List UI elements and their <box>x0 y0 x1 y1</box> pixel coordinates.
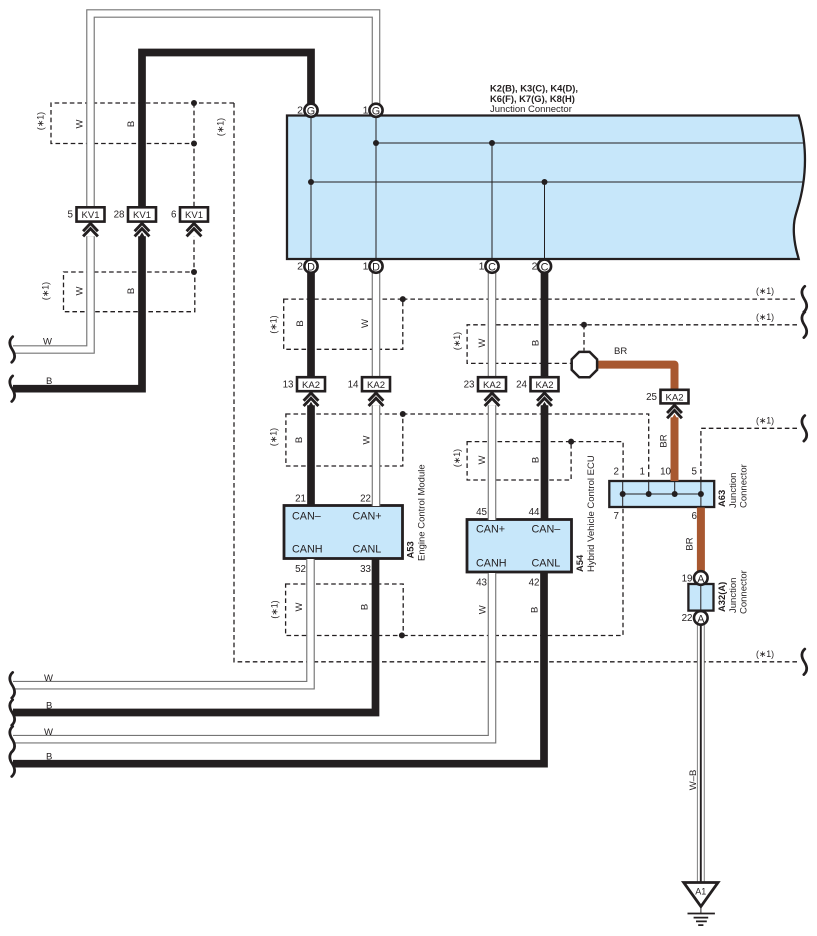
label (*1) right edge y662 <box>756 649 774 659</box>
wire dashed (*1) option box below 13/14 KA2 <box>286 414 403 466</box>
wire dashed (*1) line from A53 box to A63 pin 7 <box>403 507 623 636</box>
pin label 1 at terminal 1G <box>363 105 369 117</box>
junction dot bus x=544.5 y=182 <box>542 179 548 185</box>
connector 24 KA2 box <box>531 377 559 391</box>
svg-text:W: W <box>75 119 86 128</box>
svg-text:B: B <box>46 376 52 387</box>
wire B 13 KA2 to A53 pin 21 <box>307 405 315 506</box>
label CAN- in A54 <box>532 524 561 536</box>
label (*1) box below 13/14 rotated <box>269 428 279 446</box>
pin label 5 at A63 <box>692 467 698 478</box>
svg-text:A54: A54 <box>574 554 585 572</box>
terminal 2 G circle <box>304 104 317 118</box>
connector 14 KA2 chevrons <box>369 393 384 406</box>
wire break squiggle left B upper <box>10 376 15 402</box>
label W box below 52 rotated <box>294 602 305 611</box>
wire dashed (*1) line to A63 pin 2 <box>571 442 623 481</box>
svg-text:G: G <box>307 106 315 118</box>
svg-text:CAN+: CAN+ <box>353 511 382 523</box>
label W below 43 rotated <box>478 605 489 614</box>
wire dashed (*1) tall right branch to right edge <box>234 103 797 662</box>
svg-text:13: 13 <box>283 380 294 391</box>
svg-text:A53: A53 <box>405 541 416 558</box>
wire B loop lower segment left exit to 28 KV1 <box>13 236 142 389</box>
svg-text:CANH: CANH <box>292 544 323 556</box>
pin label 28 at 28 KV1 <box>114 210 125 221</box>
pin label 52 at A53 <box>295 564 306 575</box>
svg-text:B: B <box>294 437 305 443</box>
wire W-B A32 terminal 22 to ground A1 <box>697 625 705 883</box>
svg-text:W: W <box>43 337 52 348</box>
pin label 5 at 5 KV1 <box>68 210 74 221</box>
wire break squiggle right y325 <box>802 312 807 338</box>
label CAN+ in A53 <box>353 511 382 523</box>
svg-text:(∗1): (∗1) <box>269 315 279 333</box>
svg-text:19: 19 <box>682 573 693 584</box>
connector 6 KV1 box <box>180 207 208 221</box>
label B box above 24 rotated <box>531 340 542 346</box>
pin label 2 at terminal 2G <box>297 105 303 117</box>
wire W A54 pin 43 CANH to left exit <box>13 573 492 739</box>
label A53 designator rotated <box>405 541 416 558</box>
label B exit upper left <box>46 376 52 387</box>
internal vertical 2G-2D inside junction connector <box>310 116 312 260</box>
wire break squiggle left W upper <box>10 337 15 363</box>
svg-text:B: B <box>360 604 371 610</box>
junction dot on dashed column x=194 y=103 <box>191 100 197 106</box>
label B below 42 rotated <box>530 607 541 613</box>
label A32(A) designator rotated <box>716 582 727 612</box>
pin label 13 at 13 KA2 <box>283 380 294 391</box>
pin label 2 at terminal 2D <box>297 261 303 273</box>
svg-text:(∗1): (∗1) <box>216 118 226 136</box>
svg-text:BR: BR <box>685 537 696 550</box>
label (*1) right edge y428 <box>756 416 774 426</box>
svg-text:W: W <box>294 602 305 611</box>
svg-text:CAN+: CAN+ <box>476 524 505 536</box>
terminal 2 C circle <box>538 260 551 274</box>
svg-text:(∗1): (∗1) <box>756 649 774 659</box>
svg-text:Junction: Junction <box>728 473 739 508</box>
wire dashed (*1) option box above 13/14 KA2 <box>284 299 403 349</box>
label W box above 45 rotated <box>477 455 488 464</box>
ground symbol A1 <box>684 883 718 926</box>
junction dot A63 pin1 <box>646 491 652 497</box>
svg-text:7: 7 <box>614 511 619 522</box>
svg-text:KV1: KV1 <box>185 210 203 221</box>
svg-text:CANL: CANL <box>353 544 382 556</box>
pin label 14 at 14 KA2 <box>348 380 359 391</box>
wire W A53 pin 52 CANH to left exit <box>13 559 311 685</box>
internal bus line y=182 inside junction connector <box>311 181 803 183</box>
wire dashed (*1) line to A63 pin 5 from right edge <box>701 428 797 481</box>
wire B A53 pin 33 CANL to left exit <box>13 559 376 713</box>
wire BR octagon to 25 KA2 <box>598 365 675 391</box>
label W exit A54 <box>44 727 53 738</box>
label CANH in A53 <box>292 544 323 556</box>
svg-text:KA2: KA2 <box>666 392 684 403</box>
svg-text:C: C <box>541 262 549 274</box>
wire BR 25 KA2 to A63 pin 10 <box>671 417 679 481</box>
connector 14 KA2 box <box>362 377 390 391</box>
pin label 43 at A54 <box>476 577 487 588</box>
label BR above A63 rotated <box>659 434 670 447</box>
pin label 25 at 25 KA2 <box>646 392 657 403</box>
svg-text:B: B <box>295 320 306 326</box>
svg-text:KA2: KA2 <box>302 380 320 391</box>
pin label 24 at 24 KA2 <box>516 380 527 391</box>
label (*1) lower-left box rotated <box>41 282 51 300</box>
svg-text:1: 1 <box>640 467 645 478</box>
pin label 10 at A63 <box>660 467 671 478</box>
svg-text:B: B <box>46 700 52 711</box>
label (*1) right edge y325 <box>756 312 774 322</box>
connector 28 KV1 chevrons and arrow tip <box>135 223 150 238</box>
svg-text:6: 6 <box>692 511 698 522</box>
label A63 Junction Connector rotated <box>728 464 750 508</box>
svg-text:C: C <box>488 262 496 274</box>
label (*1) box below A53 rotated <box>270 600 280 618</box>
svg-text:KA2: KA2 <box>483 380 501 391</box>
wire dashed (*1) KV1 option column <box>193 103 195 272</box>
label BR below A63 rotated <box>685 537 696 550</box>
svg-text:(∗1): (∗1) <box>269 428 279 446</box>
wire break squiggle left W A53 <box>10 672 15 698</box>
wire break squiggle right y299 <box>802 286 807 312</box>
wire break squiggle left B A53 <box>10 700 15 726</box>
svg-text:33: 33 <box>360 564 371 575</box>
junction dot dashed x=584 y=324.8 <box>581 322 587 328</box>
svg-text:B: B <box>531 457 542 463</box>
junction dot dashed corner x=401.9 y=635.4 <box>399 632 405 638</box>
svg-text:14: 14 <box>348 380 359 391</box>
wire B A54 pin 42 CANL to left exit <box>13 573 544 764</box>
svg-text:W–B: W–B <box>688 770 699 791</box>
svg-text:W: W <box>75 286 86 295</box>
svg-text:2: 2 <box>297 105 303 117</box>
label W-B ground wire rotated <box>688 770 699 791</box>
pin label 6 at 6 KV1 <box>171 210 177 221</box>
svg-text:W: W <box>44 727 53 738</box>
junction dot on dashed column x=194 y=272 <box>191 269 197 275</box>
label B box above 44 rotated <box>531 457 542 463</box>
svg-text:A: A <box>697 613 705 625</box>
label B exit A54 <box>46 752 52 763</box>
svg-text:1: 1 <box>479 261 485 273</box>
pin label 44 at A54 <box>529 507 540 518</box>
ECU A53 Engine Control Module box <box>284 506 403 559</box>
svg-text:42: 42 <box>529 577 540 588</box>
connector 13 KA2 box <box>297 377 325 391</box>
svg-text:W: W <box>477 338 488 347</box>
pin label 19 at A32 <box>682 573 693 584</box>
connector 23 KA2 box <box>478 377 506 391</box>
terminal 1 G circle <box>369 104 382 118</box>
svg-text:24: 24 <box>516 380 527 391</box>
svg-text:B: B <box>46 752 52 763</box>
wire break squiggle right y662 <box>802 649 807 675</box>
pin label 2 at terminal 2C <box>532 261 538 273</box>
connector 28 KV1 box <box>128 207 156 221</box>
svg-text:Engine Control Module: Engine Control Module <box>417 464 428 561</box>
terminal 19 A circle <box>694 571 708 585</box>
wire dashed stub into noise-filter octagon top <box>583 325 585 351</box>
svg-text:23: 23 <box>464 380 475 391</box>
svg-text:W: W <box>362 435 373 444</box>
svg-text:CAN–: CAN– <box>532 524 561 536</box>
svg-text:Connector: Connector <box>739 464 750 508</box>
pin label 33 at A53 <box>360 564 371 575</box>
connector 5 KV1 box <box>77 207 105 221</box>
terminal 22 A circle <box>694 611 708 625</box>
svg-text:CAN–: CAN– <box>292 511 321 523</box>
svg-text:Connector: Connector <box>739 570 750 614</box>
svg-text:44: 44 <box>529 507 540 518</box>
label B exit A53 <box>46 700 52 711</box>
connector 25 KA2 box <box>661 390 689 404</box>
label W exit upper left <box>43 337 52 348</box>
label W box below 14 rotated <box>362 435 373 444</box>
pin label 6 at A63 <box>692 511 698 522</box>
svg-text:A63: A63 <box>716 490 727 507</box>
junction connector A63 box <box>609 481 714 507</box>
svg-text:A32(A): A32(A) <box>716 582 727 612</box>
svg-text:(∗1): (∗1) <box>756 416 774 426</box>
label (*1) box above 13/14 rotated <box>269 315 279 333</box>
wire dashed (*1) option box above A54 <box>467 442 571 480</box>
label W box above 14 rotated <box>360 319 371 328</box>
label A54 designator rotated <box>574 554 585 572</box>
wire W terminal 1C to 23 KA2 <box>488 272 497 378</box>
svg-text:CANL: CANL <box>532 558 561 570</box>
wire BR A63 pin 6 to A32 terminal 19 <box>697 508 705 572</box>
label CANH in A54 <box>476 558 507 570</box>
label W exit A53 <box>44 673 53 684</box>
svg-text:(∗1): (∗1) <box>270 600 280 618</box>
label B lower-left box rotated <box>126 288 137 294</box>
label CANL in A54 <box>532 558 561 570</box>
svg-text:(∗1): (∗1) <box>41 282 51 300</box>
label Hybrid Vehicle Control ECU rotated <box>586 455 597 572</box>
svg-text:43: 43 <box>476 577 487 588</box>
pin label 2 at A63 <box>614 467 619 478</box>
junction dot dashed x=571.1 y=441.6 <box>568 439 574 445</box>
pin label 45 at A54 <box>476 507 487 518</box>
junction dot dashed corner x=402.8 y=299.1 <box>400 296 406 302</box>
svg-text:B: B <box>126 121 137 127</box>
terminal 1 C circle <box>485 260 498 274</box>
wire dashed (*1) line to right edge y=299 <box>403 298 797 300</box>
svg-text:D: D <box>372 262 380 274</box>
svg-text:B: B <box>126 288 137 294</box>
connector 6 KV1 chevrons <box>187 223 202 236</box>
svg-text:21: 21 <box>295 494 306 505</box>
pin label 22 at A53 <box>360 494 371 505</box>
svg-text:W: W <box>477 455 488 464</box>
connector 23 KA2 chevrons <box>485 393 500 406</box>
svg-text:22: 22 <box>360 494 371 505</box>
label (*1) right edge y299 <box>756 286 774 296</box>
junction dot A63 pin10 <box>672 491 678 497</box>
junction connector K2-K8 main box <box>287 116 805 260</box>
label (*1) box above A54 rotated <box>452 449 462 467</box>
svg-text:Junction: Junction <box>728 578 739 613</box>
svg-text:25: 25 <box>646 392 657 403</box>
wire dashed (*1) option box above 23/24 KA2 with line to right edge <box>467 325 797 364</box>
label W box above 23 rotated <box>477 338 488 347</box>
wire W 23 KA2 to A54 pin 45 <box>488 405 497 520</box>
pin label 7 at A63 <box>614 511 619 522</box>
svg-text:D: D <box>307 262 315 274</box>
wire break squiggle left B A54 <box>10 751 15 777</box>
svg-text:W: W <box>360 319 371 328</box>
svg-text:28: 28 <box>114 210 125 221</box>
wire B loop upper segment 28 KV1 to terminal 2G <box>142 53 311 208</box>
svg-text:22: 22 <box>682 613 693 624</box>
junction dot A63 pin2 <box>620 491 626 497</box>
svg-text:1: 1 <box>363 105 369 117</box>
white gap on dashed column at 6 KV1 <box>187 222 201 237</box>
pin label 23 at 23 KA2 <box>464 380 475 391</box>
svg-text:(∗1): (∗1) <box>36 112 46 130</box>
junction dot bus x=376 y=143 <box>373 140 379 146</box>
internal vertical 1C stub inside junction connector <box>491 143 493 259</box>
label A32 Junction Connector rotated <box>728 570 750 614</box>
svg-text:10: 10 <box>660 467 671 478</box>
pin label 1 at terminal 1C <box>479 261 485 273</box>
svg-text:B: B <box>531 340 542 346</box>
svg-text:G: G <box>372 106 380 118</box>
label CANL in A53 <box>353 544 382 556</box>
svg-text:BR: BR <box>614 346 627 357</box>
svg-text:(∗1): (∗1) <box>452 332 462 350</box>
junction dot bus x=492 y=143 <box>489 140 495 146</box>
svg-text:A1: A1 <box>695 887 706 897</box>
internal bus line of A63 <box>623 481 701 507</box>
wire dashed (*1) lower-left option box <box>64 272 195 312</box>
svg-text:Junction Connector: Junction Connector <box>490 104 572 115</box>
svg-text:K6(F), K7(G), K8(H): K6(F), K7(G), K8(H) <box>490 93 575 104</box>
pin label 22 at A32 <box>682 613 693 624</box>
svg-text:B: B <box>530 607 541 613</box>
internal vertical 1G-1D inside junction connector <box>375 116 377 260</box>
terminal 1 D circle <box>369 260 382 274</box>
wire dashed (*1) option box below A53 <box>286 584 404 636</box>
label junction connector title <box>490 83 578 116</box>
pin label 1 at terminal 1D <box>363 261 369 273</box>
svg-text:(∗1): (∗1) <box>452 449 462 467</box>
svg-text:KA2: KA2 <box>536 380 554 391</box>
svg-text:1: 1 <box>363 261 369 273</box>
label W top-left box rotated <box>75 119 86 128</box>
svg-text:2: 2 <box>297 261 303 273</box>
internal vertical 2C stub inside junction connector <box>544 182 546 259</box>
label CAN+ in A54 <box>476 524 505 536</box>
label B top-left box rotated <box>126 121 137 127</box>
svg-text:52: 52 <box>295 564 306 575</box>
label B box below 13 rotated <box>294 437 305 443</box>
svg-text:(∗1): (∗1) <box>756 286 774 296</box>
connector 25 KA2 chevrons and arrow tip <box>667 405 682 420</box>
svg-text:2: 2 <box>532 261 538 273</box>
noise filter octagon <box>572 352 597 377</box>
wire W 14 KA2 to A53 pin 22 <box>372 405 381 506</box>
svg-text:KV1: KV1 <box>133 210 151 221</box>
connector 5 KV1 chevrons <box>83 223 98 236</box>
label CAN- in A53 <box>292 511 321 523</box>
svg-text:KV1: KV1 <box>82 210 100 221</box>
wire dashed (*1) top-left option box <box>51 103 234 144</box>
svg-text:W: W <box>44 673 53 684</box>
wire B terminal 2D to 13 KA2 <box>307 272 315 378</box>
label W lower-left box rotated <box>75 286 86 295</box>
junction dot on dashed column x=194 y=143.5 <box>191 141 197 147</box>
svg-text:CANH: CANH <box>476 558 507 570</box>
svg-text:Hybrid Vehicle Control ECU: Hybrid Vehicle Control ECU <box>586 455 597 572</box>
label B box above 13 rotated <box>295 320 306 326</box>
pin label 1 at A63 <box>640 467 645 478</box>
wire B 24 KA2 to A54 pin 44 <box>541 405 549 520</box>
junction connector A32(A) box <box>688 584 713 611</box>
wire break squiggle right y428 <box>802 416 807 442</box>
svg-text:45: 45 <box>476 507 487 518</box>
svg-text:A: A <box>697 573 705 585</box>
wire B terminal 2C to 24 KA2 <box>541 272 549 378</box>
junction dot bus x=311 y=182 <box>308 179 314 185</box>
wire W loop lower segment left exit to 5 KV1 <box>13 236 91 349</box>
svg-text:5: 5 <box>692 467 698 478</box>
svg-text:KA2: KA2 <box>367 380 385 391</box>
junction dot A63 pin5 <box>698 491 704 497</box>
label (*1) box above 23/24 rotated <box>452 332 462 350</box>
pin label 21 at A53 <box>295 494 306 505</box>
terminal 2 D circle <box>304 260 317 274</box>
internal bus line y=143 inside junction connector <box>376 142 803 144</box>
connector 24 KA2 chevrons and arrow tip <box>537 393 552 408</box>
label A63 designator rotated <box>716 490 727 507</box>
wire W loop upper segment 5 KV1 to terminal 1G <box>91 14 377 208</box>
svg-text:6: 6 <box>171 210 177 221</box>
connector 13 KA2 chevrons and arrow tip <box>304 393 319 408</box>
svg-text:5: 5 <box>68 210 74 221</box>
junction dot dashed corner x=402.8 y=414 <box>400 411 406 417</box>
wire dashed (*1) line to A63 pin 1 <box>403 414 649 481</box>
label B box below 33 rotated <box>360 604 371 610</box>
svg-text:K2(B), K3(C), K4(D),: K2(B), K3(C), K4(D), <box>490 83 578 94</box>
label BR at octagon wire <box>614 346 627 357</box>
svg-text:W: W <box>478 605 489 614</box>
svg-text:2: 2 <box>614 467 619 478</box>
label (*1) tall dashed rotated <box>216 118 226 136</box>
wire W terminal 1D to 14 KA2 <box>372 272 381 378</box>
wire break squiggle left W A54 <box>10 726 15 752</box>
label (*1) top-left box rotated <box>36 112 46 130</box>
svg-text:(∗1): (∗1) <box>756 312 774 322</box>
svg-text:BR: BR <box>659 434 670 447</box>
pin label 42 at A54 <box>529 577 540 588</box>
ECU A54 Hybrid Vehicle Control ECU box <box>467 520 572 573</box>
label Engine Control Module rotated <box>417 464 428 561</box>
